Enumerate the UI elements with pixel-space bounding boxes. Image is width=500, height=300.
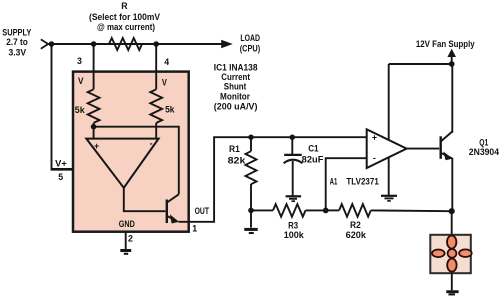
node R1 bottom [248, 208, 254, 214]
wire R3 to node [306, 209, 326, 211]
node C1 top [290, 135, 295, 140]
svg-text:-: - [373, 153, 376, 163]
svg-text:82k: 82k [228, 155, 246, 165]
svg-text:R1: R1 [229, 144, 240, 154]
svg-text:+: + [372, 133, 377, 143]
wire R1 bottom to R3 [251, 209, 273, 211]
svg-text:2: 2 [128, 233, 133, 243]
op-amp V+ supply wire [388, 64, 390, 140]
ground pin2 [125, 232, 127, 249]
wire R1 top lead [250, 137, 252, 151]
wire apex to base [124, 188, 166, 211]
transistor Q1 [440, 136, 442, 159]
svg-text:-: - [150, 139, 153, 149]
svg-text:Shunt: Shunt [224, 82, 247, 92]
node R3/R2 junction [323, 208, 329, 214]
ground below C1 [286, 195, 302, 197]
ground below fan [451, 273, 453, 290]
svg-text:Current: Current [221, 72, 250, 82]
wire supply rail [48, 43, 223, 45]
resistor R (shunt) [109, 38, 142, 50]
svg-text:V: V [78, 76, 84, 86]
svg-text:C1: C1 [308, 144, 318, 154]
resistor 5k left [88, 89, 100, 123]
wire pin5 stub [51, 168, 74, 171]
svg-text:LOAD: LOAD [240, 33, 260, 43]
svg-text:2N3904: 2N3904 [469, 147, 499, 157]
arrow 12V fan supply [451, 54, 453, 64]
node pin4 top [153, 41, 159, 47]
svg-text:A1: A1 [330, 177, 338, 187]
svg-text:12V Fan Supply: 12V Fan Supply [416, 39, 475, 49]
svg-text:82uF: 82uF [302, 154, 324, 164]
svg-text:+: + [94, 141, 99, 151]
svg-text:3: 3 [77, 56, 82, 66]
svg-text:V: V [162, 77, 167, 87]
fan symbol [430, 235, 471, 273]
ground below op-amp [381, 195, 397, 197]
svg-text:IC1 INA138: IC1 INA138 [214, 63, 258, 73]
svg-text:Q1: Q1 [479, 137, 488, 147]
svg-text:620k: 620k [346, 230, 367, 240]
resistor R3 [273, 204, 306, 217]
wire node to R2 [326, 209, 339, 211]
node emitter / R2 / fan [449, 208, 455, 214]
svg-text:5k: 5k [165, 104, 174, 114]
wire 5k to +input [93, 123, 95, 139]
svg-text:SUPPLY: SUPPLY [2, 27, 31, 37]
wire -input of A1 [326, 158, 367, 210]
svg-text:100k: 100k [284, 230, 304, 240]
node R1 top [248, 135, 253, 140]
node +input [91, 124, 97, 130]
op-amp V- ground wire [388, 158, 390, 195]
wire pin3 drop [93, 44, 95, 89]
node 12V [449, 61, 455, 67]
op-amp A1 [367, 129, 407, 168]
op-amp internal triangle [86, 139, 158, 188]
IC body INA138 (pink box) [73, 72, 189, 232]
resistor 5k right [150, 89, 162, 123]
wire R2 to emitter node [371, 209, 452, 212]
supply input arrow [41, 39, 48, 48]
svg-text:(CPU): (CPU) [240, 44, 261, 54]
ground below R1 [250, 210, 252, 227]
svg-text:OUT: OUT [195, 206, 210, 216]
wire to fan [451, 211, 453, 235]
wire feedback [94, 127, 179, 195]
wire op-amp output to Q1 base [407, 148, 440, 150]
wire OUT [179, 137, 367, 222]
svg-text:Monitor: Monitor [220, 91, 251, 101]
wire pin4 drop [155, 44, 157, 89]
capacitor C1 [291, 137, 293, 154]
svg-text:(Select for 100mV: (Select for 100mV [89, 12, 160, 22]
node supply input [49, 41, 55, 47]
svg-text:R3: R3 [288, 220, 298, 230]
node pin3 top [91, 41, 97, 47]
wire 5k to -input [155, 123, 157, 139]
wire 12V rail [389, 63, 452, 65]
svg-text:(200 uA/V): (200 uA/V) [214, 101, 258, 111]
svg-text:TLV2371: TLV2371 [346, 177, 378, 187]
svg-text:GND: GND [119, 219, 135, 229]
svg-text:2.7 to: 2.7 to [6, 37, 28, 47]
resistor R1 [246, 151, 257, 184]
svg-text:@ max current): @ max current) [97, 22, 155, 32]
resistor R2 [339, 204, 371, 217]
wire left drop to V+ pin [51, 44, 53, 169]
transistor internal (output NPN) [166, 200, 168, 224]
svg-text:R: R [121, 1, 128, 11]
svg-text:R2: R2 [350, 220, 361, 230]
svg-text:3.3V: 3.3V [9, 47, 27, 57]
arrow to LOAD [221, 40, 233, 49]
svg-text:5: 5 [58, 172, 63, 182]
svg-text:V+: V+ [55, 159, 67, 169]
svg-text:4: 4 [164, 57, 169, 67]
wire R1 bottom lead [250, 184, 252, 210]
svg-text:1: 1 [192, 223, 197, 233]
svg-text:5k: 5k [75, 105, 85, 115]
